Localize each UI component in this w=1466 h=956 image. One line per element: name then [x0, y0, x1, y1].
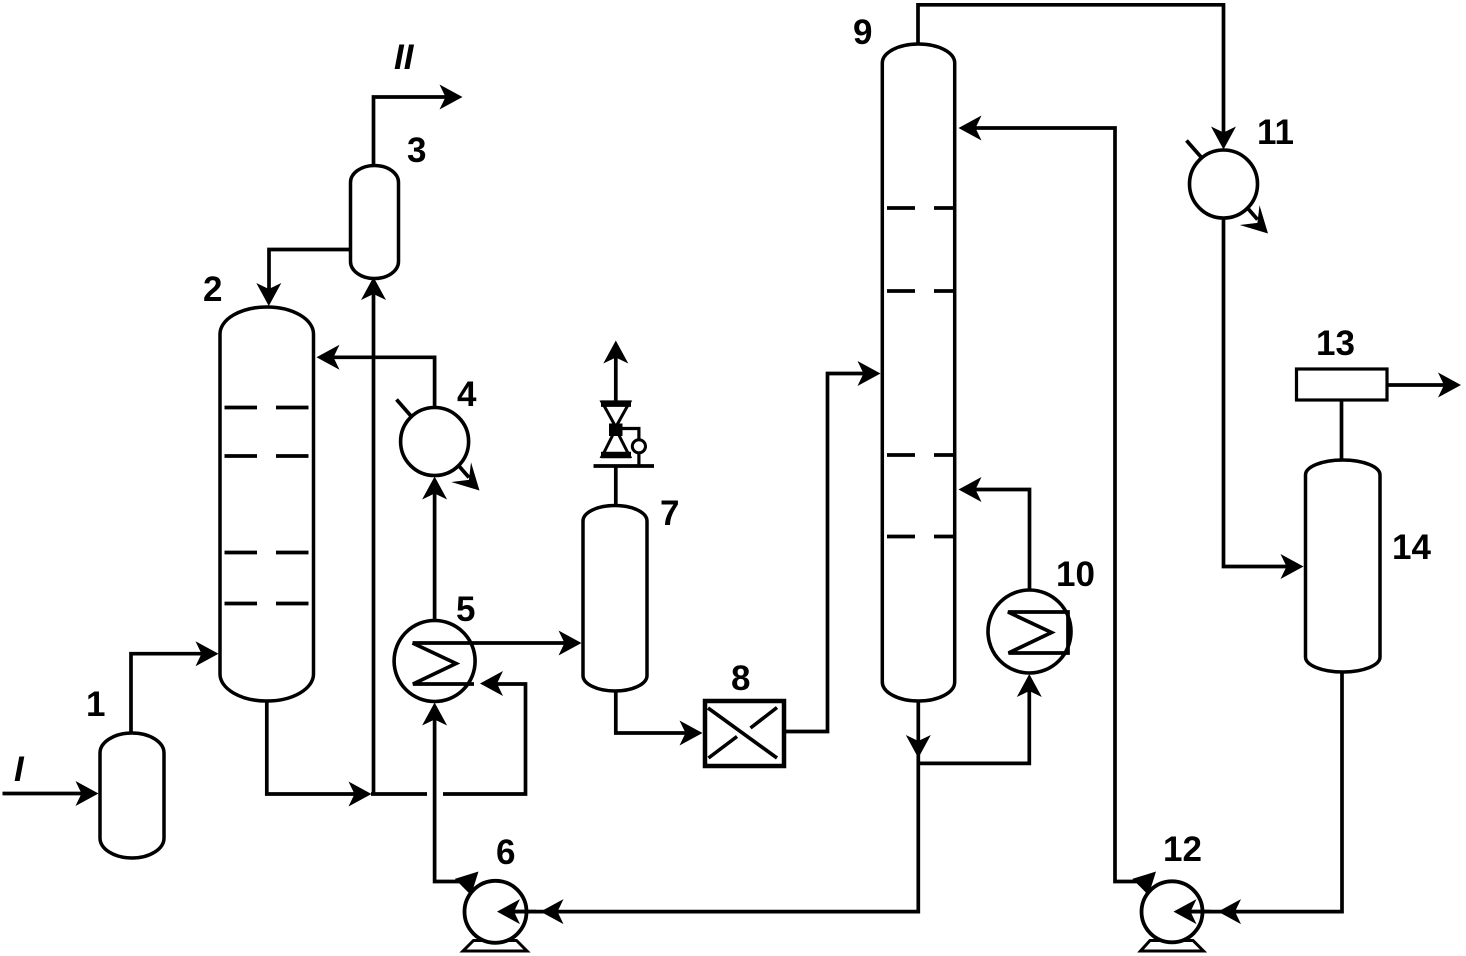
svg-text:7: 7 — [660, 494, 679, 533]
svg-text:6: 6 — [496, 833, 515, 872]
svg-text:12: 12 — [1163, 830, 1202, 869]
svg-text:8: 8 — [731, 659, 750, 698]
svg-text:4: 4 — [457, 375, 477, 414]
svg-text:14: 14 — [1392, 528, 1431, 567]
svg-text:10: 10 — [1056, 555, 1095, 594]
svg-text:11: 11 — [1257, 113, 1294, 152]
svg-text:1: 1 — [86, 685, 105, 724]
svg-text:I: I — [14, 750, 25, 789]
svg-text:9: 9 — [853, 13, 872, 52]
svg-text:II: II — [394, 38, 415, 77]
svg-text:5: 5 — [456, 590, 475, 629]
svg-text:3: 3 — [407, 131, 426, 170]
svg-text:2: 2 — [203, 270, 222, 309]
svg-text:13: 13 — [1316, 324, 1355, 363]
